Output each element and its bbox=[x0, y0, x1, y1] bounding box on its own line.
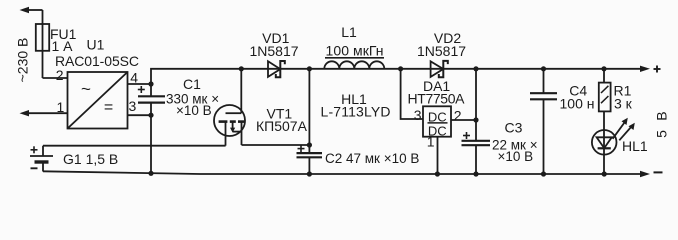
resistor R1 bbox=[599, 69, 611, 112]
LED HL1 bbox=[592, 111, 617, 174]
bottom rail wire bbox=[43, 171, 641, 174]
label VT1 bbox=[267, 105, 293, 121]
wire battery plus rail bbox=[43, 145, 226, 147]
label 1N5817 (VD1) bbox=[249, 43, 298, 59]
node C2 / drain junction bbox=[307, 142, 312, 147]
node HL1 bottom rail bbox=[602, 171, 607, 176]
label 1N5817 (VD2) bbox=[417, 43, 466, 59]
pin 3 label bbox=[129, 98, 137, 114]
label 100 мкГн bbox=[326, 43, 384, 59]
node L1 right / DA1 pin3 bbox=[398, 66, 403, 71]
svg-text:U1: U1 bbox=[87, 37, 105, 53]
svg-text:RAC01-05SC: RAC01-05SC bbox=[55, 53, 139, 69]
converter DA1 HT7750A bbox=[423, 106, 451, 138]
svg-text:×10 В: ×10 В bbox=[498, 149, 534, 164]
node C4 top rail bbox=[541, 66, 546, 71]
label КП507А bbox=[256, 118, 308, 134]
wire pin2 bbox=[43, 77, 68, 79]
LED arrows bbox=[613, 118, 635, 141]
wire corner to top rail bbox=[151, 69, 641, 84]
label HL1 (at LED) bbox=[622, 138, 648, 154]
node pin3/C1 bbox=[148, 113, 153, 118]
input arrow ~230V top bbox=[20, 7, 43, 78]
node bottom rail x151 bbox=[148, 171, 153, 176]
capacitor C2 bbox=[297, 145, 323, 174]
pin 4 label bbox=[130, 70, 138, 86]
label FU1 1A bbox=[50, 26, 77, 54]
wire drain to C2 node bbox=[242, 144, 310, 146]
svg-text:~: ~ bbox=[81, 80, 91, 99]
battery G1 bbox=[30, 146, 53, 172]
wire pin4 bbox=[128, 83, 152, 85]
label U1 bbox=[87, 37, 105, 53]
node C4 bottom rail bbox=[541, 171, 546, 176]
label R1 bbox=[614, 83, 632, 99]
svg-text:100 н: 100 н bbox=[560, 96, 595, 112]
wire pin2 up to rail bbox=[475, 69, 477, 120]
label 330 мк × bbox=[166, 91, 219, 106]
svg-text:HT7750A: HT7750A bbox=[408, 91, 466, 107]
node R1 top rail bbox=[601, 66, 606, 71]
label C4 bbox=[569, 82, 587, 98]
pin 1 label bbox=[57, 99, 65, 115]
svg-text:1: 1 bbox=[427, 134, 435, 150]
svg-text:C3: C3 bbox=[505, 119, 523, 135]
plus sign top right bbox=[654, 66, 661, 73]
svg-text:2: 2 bbox=[56, 67, 64, 83]
node pin2 / C3 bbox=[473, 117, 478, 122]
node pin4/C1 junction bbox=[148, 81, 153, 86]
label 3 к bbox=[614, 96, 633, 112]
pin 1 label DA1 bbox=[427, 134, 435, 150]
node pin1 bottom rail bbox=[435, 171, 440, 176]
label ~230 В bbox=[15, 38, 31, 83]
pin 3 label DA1 bbox=[414, 107, 422, 123]
label L-7113LYD bbox=[321, 103, 391, 119]
node VD1 cathode / L1 bbox=[307, 66, 312, 71]
svg-text:КП507А: КП507А bbox=[256, 118, 308, 134]
label VD1 bbox=[262, 30, 289, 46]
label HT7750A bbox=[408, 91, 466, 107]
label G1 1,5 В bbox=[63, 151, 118, 167]
svg-text:HL1: HL1 bbox=[622, 138, 648, 154]
svg-text:1N5817: 1N5817 bbox=[417, 43, 466, 59]
svg-text:DC: DC bbox=[428, 109, 447, 124]
label 5 В bbox=[654, 110, 670, 138]
label C2 47 мк ×10 В bbox=[325, 151, 419, 166]
node C3 bottom rail bbox=[473, 171, 478, 176]
svg-text:3: 3 bbox=[414, 107, 422, 123]
wire down to bottom rail bbox=[150, 115, 152, 173]
wire to DA1 pin3 bbox=[401, 69, 423, 119]
output arrow - bottom right bbox=[640, 171, 650, 177]
pin 2 label bbox=[56, 67, 64, 83]
svg-text:=: = bbox=[104, 99, 113, 116]
svg-text:G1 1,5 В: G1 1,5 В bbox=[63, 151, 118, 167]
wire DA1 pin2 bbox=[451, 119, 476, 121]
svg-text:5 В: 5 В bbox=[654, 110, 670, 138]
label RAC01-05SC bbox=[55, 53, 139, 69]
wire pin1 with arrow bbox=[20, 110, 68, 116]
wire VD1 node down to C2 node bbox=[308, 69, 310, 145]
label ×10 В (C1) bbox=[176, 103, 212, 118]
label 100 н bbox=[560, 96, 595, 112]
minus sign bottom right bbox=[654, 171, 663, 173]
wire pin3 bbox=[128, 114, 152, 116]
label VD2 bbox=[434, 30, 461, 46]
inductor L1 bbox=[324, 58, 384, 69]
node gate on top rail bbox=[239, 66, 244, 71]
wire DA1 pin1 to ground bbox=[437, 137, 439, 174]
capacitor C4 bbox=[530, 69, 557, 174]
label HL1 (type line) bbox=[341, 91, 367, 107]
svg-text:1 А: 1 А bbox=[52, 38, 74, 54]
label C1 bbox=[183, 76, 201, 92]
AC/DC module U1 RAC01-05SC bbox=[68, 72, 128, 129]
svg-text:L-7113LYD: L-7113LYD bbox=[321, 103, 391, 119]
pin 2 label DA1 bbox=[454, 107, 462, 123]
svg-text:3 к: 3 к bbox=[614, 96, 633, 112]
diode VD2 1N5817 bbox=[431, 61, 448, 77]
capacitor C1 bbox=[138, 84, 165, 115]
fuse FU1 bbox=[36, 24, 49, 51]
svg-text:C1: C1 bbox=[183, 76, 201, 92]
label 22 мк × bbox=[492, 138, 538, 153]
svg-text:L1: L1 bbox=[341, 24, 357, 40]
svg-text:×10 В: ×10 В bbox=[176, 103, 212, 118]
label ×10 В (C3) bbox=[498, 149, 534, 164]
label DA1 bbox=[423, 78, 450, 94]
svg-text:1N5817: 1N5817 bbox=[249, 43, 298, 59]
transistor VT1 КП507А bbox=[214, 69, 245, 146]
label C3 bbox=[505, 119, 523, 135]
output arrow + top right bbox=[640, 66, 650, 72]
capacitor C3 bbox=[462, 120, 491, 174]
svg-text:~230 В: ~230 В bbox=[15, 38, 31, 83]
diode VD1 1N5817 bbox=[268, 61, 285, 77]
svg-text:C2 47 мк ×10 В: C2 47 мк ×10 В bbox=[325, 151, 419, 166]
node C2 bottom rail bbox=[307, 171, 312, 176]
svg-text:100 мкГн: 100 мкГн bbox=[326, 43, 384, 59]
label L1 bbox=[341, 24, 357, 40]
node VD2 cathode top rail bbox=[473, 66, 478, 71]
svg-text:3: 3 bbox=[129, 98, 137, 114]
